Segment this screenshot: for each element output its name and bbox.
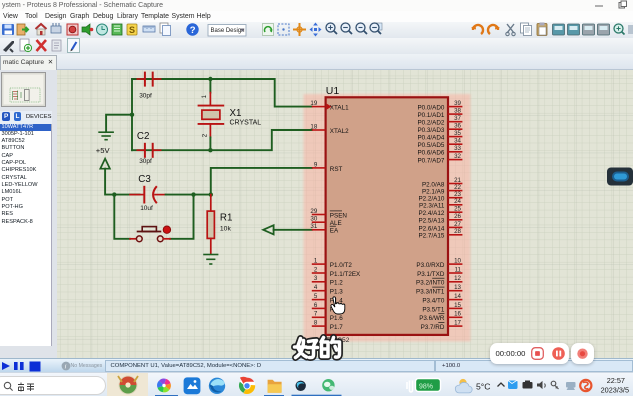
- pin 11 P3.1/TXD: [417, 266, 462, 278]
- pin 23 P2.2/A10: [418, 191, 462, 203]
- pin 3 P1.2: [312, 275, 343, 287]
- pin 36 P0.3/AD3: [417, 123, 462, 135]
- pin 12 P3.2/INT0: [416, 275, 462, 287]
- wire: button right riser: [170, 195, 194, 239]
- pin 8 P1.7: [312, 320, 343, 332]
- pin 24 P2.3/A11: [419, 198, 462, 210]
- pin 39 P0.0/AD0: [417, 100, 462, 112]
- tab bar: [0, 54, 633, 70]
- capacitor C2 30pf: [137, 131, 161, 165]
- taskbar: [0, 372, 633, 396]
- pin 31 EA: [310, 223, 339, 235]
- status bar: [0, 358, 633, 373]
- pin 17 P3.7/RD: [421, 320, 463, 332]
- pin 21 P2.0/A8: [422, 177, 462, 189]
- pin 38 P0.1/AD1: [417, 108, 462, 120]
- node: junction R1/RST: [209, 192, 213, 196]
- pin 28 P2.7/A15: [418, 228, 462, 240]
- pin 16 P3.6/WR: [419, 311, 462, 323]
- pin 2 P1.1/T2EX: [312, 266, 361, 278]
- capacitor C1 30pf: [137, 72, 160, 100]
- pin 25 P2.4/A12: [418, 206, 462, 218]
- pin 9 RST: [312, 161, 343, 173]
- menu bar: [0, 11, 633, 22]
- resistor R1 10k: [207, 195, 232, 254]
- node: junction +5V/button: [112, 192, 116, 196]
- pin 1 P1.0/T2: [312, 258, 353, 270]
- pin 26 P2.5/A13: [418, 213, 462, 225]
- pin 15 P3.5/T1: [422, 302, 462, 314]
- pin 5 P1.4: [312, 293, 343, 305]
- wire: RST net to pin 9: [211, 168, 312, 195]
- power +5V: [96, 146, 115, 194]
- pin 18 XTAL2: [310, 123, 349, 135]
- op-amp/mcu U1 AT89C52 body: [326, 85, 448, 335]
- wire: C3 right to R1 node: [166, 194, 211, 196]
- pin 35 P0.4/AD4: [417, 130, 462, 142]
- pin 27 P2.6/A14: [418, 221, 462, 233]
- left panel: [0, 70, 57, 358]
- wire: left vertical C1-left to C2-left: [131, 79, 133, 150]
- svg-text:2023/3/5: 2023/3/5: [601, 386, 629, 395]
- battery: [407, 379, 441, 393]
- pin 34 P0.5/AD5: [417, 138, 462, 150]
- wire: ground branch from left vertical: [106, 115, 132, 132]
- schematic grid: [57, 70, 633, 358]
- title bar: [0, 0, 633, 11]
- svg-text:98%: 98%: [419, 383, 433, 390]
- pushbutton: [130, 226, 171, 242]
- svg-text:5°C: 5°C: [476, 382, 490, 392]
- pin 4 P1.3: [312, 284, 343, 296]
- ground (under R1): [203, 255, 218, 265]
- taskbar icons: [157, 379, 171, 393]
- floating mini widget (screen overlay): [607, 168, 633, 186]
- toolbar row 1: [0, 22, 633, 38]
- wire: C1 top rail to XTAL1: [132, 79, 312, 107]
- pin 10 P3.0/RXD: [416, 258, 462, 270]
- wire: +5V rail to C3: [114, 194, 139, 196]
- crystal X1: [198, 79, 262, 150]
- capacitor C3 10uf: [130, 174, 166, 212]
- node: junction button/RST rail: [191, 192, 195, 196]
- pin 14 P3.4/T0: [422, 293, 462, 305]
- mouse cursor (hand): [331, 297, 345, 314]
- wire: EA pin with arrow: [263, 225, 312, 234]
- node: crystal top junction: [208, 77, 212, 81]
- pin 22 P2.1/A9: [422, 184, 462, 196]
- pin 30 ALE: [310, 216, 341, 228]
- svg-text:22:57: 22:57: [607, 376, 625, 385]
- toolbar row 2: [0, 38, 633, 54]
- pin 13 P3.3/INT1: [416, 284, 462, 296]
- pin 32 P0.7/AD7: [417, 153, 462, 165]
- node: junction C1/ground: [130, 113, 134, 117]
- recording widget: [490, 343, 569, 365]
- selection highlight around U1: [304, 94, 471, 342]
- wire: button left drop: [114, 195, 130, 239]
- pin 19 XTAL1: [310, 100, 349, 112]
- schematic editor: [57, 70, 633, 358]
- ground (upper left): [98, 132, 114, 140]
- pin 33 P0.6/AD6: [417, 145, 462, 157]
- pin 37 P0.2/AD2: [417, 115, 462, 127]
- pin 6 P1.5: [312, 302, 343, 314]
- pin 29 PSEN: [310, 208, 347, 220]
- pin 7 P1.6: [312, 311, 343, 323]
- tray weather: [455, 379, 472, 393]
- value label AT89C52: [322, 337, 350, 344]
- node: crystal bottom junction: [208, 148, 212, 152]
- wire: C2 rail to XTAL2: [132, 130, 312, 150]
